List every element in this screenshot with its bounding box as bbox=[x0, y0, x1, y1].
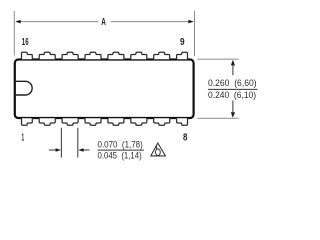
svg-text:0.045 (1,14): 0.045 (1,14) bbox=[98, 150, 142, 160]
lead width dim: extension line left bbox=[60, 128, 62, 158]
pin 4 lead (bottom) bbox=[85, 118, 101, 125]
svg-text:1: 1 bbox=[22, 133, 25, 144]
package body bbox=[15, 60, 194, 119]
body width dim: down arrowhead bbox=[231, 112, 235, 118]
body width dim: line stub top bbox=[232, 65, 234, 76]
lead width dim: extension line right bbox=[77, 128, 79, 158]
svg-text:9: 9 bbox=[180, 37, 185, 48]
body width dim: extension line bottom bbox=[197, 117, 238, 119]
pin 8 lead (bottom, no right shoulder) bbox=[177, 118, 188, 125]
dimension A extension line right bbox=[194, 11, 196, 56]
lead width dim: right stem bbox=[83, 149, 90, 151]
fraction line right bbox=[208, 88, 258, 90]
pin 16 lead (top, no left shoulder) bbox=[22, 52, 33, 59]
pin 3 lead (bottom) bbox=[62, 118, 78, 125]
svg-text:A: A bbox=[101, 17, 106, 28]
pin 9 lead (top, no right shoulder) bbox=[177, 52, 188, 59]
body width dim: extension line top bbox=[197, 58, 238, 60]
pin 14 lead (top) bbox=[62, 52, 78, 59]
pin 6 lead (bottom) bbox=[131, 118, 147, 125]
pin 7 lead (bottom) bbox=[154, 118, 170, 125]
svg-text:16: 16 bbox=[22, 37, 29, 48]
pin 10 lead (top) bbox=[154, 52, 170, 59]
svg-text:8: 8 bbox=[183, 133, 188, 144]
lead width dim: left stem bbox=[49, 149, 56, 151]
dimension A left arrowhead bbox=[15, 20, 21, 24]
fraction line bottom bbox=[98, 149, 144, 151]
dimension A line bbox=[20, 21, 99, 23]
body width dim: line stub bottom bbox=[232, 101, 234, 114]
pin-1 index notch bbox=[15, 81, 32, 95]
note triangle bbox=[151, 143, 166, 156]
pin 11 lead (top) bbox=[131, 52, 147, 59]
dimension A extension line left bbox=[13, 11, 15, 56]
svg-text:0.260 (6,60): 0.260 (6,60) bbox=[208, 78, 257, 88]
svg-text:0.240 (6,10): 0.240 (6,10) bbox=[208, 90, 256, 100]
lead width dim: right arrowhead (points left) bbox=[78, 148, 83, 152]
note triangle inner glyph bbox=[156, 149, 161, 156]
pin 12 lead (top) bbox=[108, 52, 124, 59]
lead width dim: left arrowhead (points right) bbox=[56, 148, 61, 152]
pin 1 lead (bottom, no left shoulder) bbox=[22, 118, 33, 125]
pin 15 lead (top) bbox=[39, 52, 55, 59]
dimension A right arrowhead bbox=[188, 20, 194, 24]
body width dim: up arrowhead bbox=[231, 60, 235, 66]
pin 5 lead (bottom) bbox=[108, 118, 124, 125]
svg-text:0.070 (1,78): 0.070 (1,78) bbox=[98, 139, 143, 149]
pin 2 lead (bottom) bbox=[39, 118, 55, 125]
pin 13 lead (top) bbox=[85, 52, 101, 59]
